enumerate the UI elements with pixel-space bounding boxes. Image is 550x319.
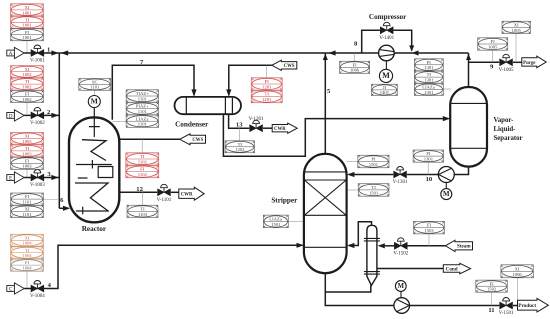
instrument SC-1101 (79, 78, 111, 90)
wire stream 13 valve to CWR flag (263, 127, 272, 129)
wire steam supply line (407, 245, 445, 247)
wire stripper pump motor link (400, 292, 402, 298)
arrow stream 10 into stripper (347, 172, 354, 177)
svg-text:1102: 1102 (138, 172, 148, 177)
svg-text:1001: 1001 (22, 23, 32, 28)
svg-text:Reactor: Reactor (82, 225, 107, 233)
wire connector SC-1101 to motor (94, 90, 96, 95)
svg-text:PI: PI (427, 60, 432, 65)
svg-text:1101: 1101 (138, 109, 148, 114)
arrow condenser outlet into separator (443, 116, 450, 121)
svg-text:1004: 1004 (22, 266, 32, 271)
svg-text:Compressor: Compressor (369, 13, 407, 21)
svg-text:TI: TI (25, 17, 30, 22)
wire connector FI-1503 to steam line (428, 234, 430, 246)
arrow stream 1 junction (51, 50, 58, 55)
svg-text:1101: 1101 (138, 122, 148, 127)
svg-text:Steam: Steam (457, 244, 471, 250)
arrow stream 5 into header (323, 54, 328, 60)
svg-text:V-1005: V-1005 (499, 68, 514, 73)
instrument TI-1103 (127, 205, 158, 217)
svg-text:TIAZ+: TIAZ+ (136, 91, 149, 96)
instrument XI-1005 (502, 21, 531, 33)
svg-text:1301: 1301 (424, 90, 434, 95)
instrument LIAZ-1101 (126, 115, 159, 127)
wire steam valve to reboiler (385, 245, 395, 247)
motor M compressor (379, 69, 392, 82)
svg-text:CWS: CWS (284, 64, 295, 69)
svg-text:1002: 1002 (22, 85, 32, 90)
instrument FI-1503 (414, 221, 445, 234)
svg-text:1006: 1006 (350, 68, 360, 73)
instrument TI-1001 (11, 16, 44, 28)
svg-text:V-1301: V-1301 (393, 180, 408, 185)
svg-text:FI: FI (25, 194, 30, 199)
wire connector PI-1501 to stripper (347, 161, 358, 163)
valve V-1502 (393, 238, 408, 256)
condenser tube sheet right (225, 97, 232, 114)
svg-text:XI: XI (25, 5, 30, 10)
arrow reboiler vapor into stripper (347, 243, 354, 248)
svg-text:V-1101: V-1101 (157, 198, 172, 203)
arrow header flow left after stream-5 junction (328, 50, 335, 55)
svg-text:Separator: Separator (494, 135, 523, 142)
wire CWS supply to condenser (229, 65, 272, 95)
reactor vessel (69, 117, 119, 222)
svg-text:M: M (91, 97, 98, 106)
svg-text:TI: TI (427, 72, 432, 77)
svg-text:TI: TI (25, 79, 30, 84)
flag Product outlet (518, 298, 549, 312)
svg-text:Product: Product (518, 303, 536, 309)
flag CWR from reactor coil (179, 187, 204, 200)
instrument TI-1002 (11, 78, 44, 90)
svg-text:1101: 1101 (22, 212, 32, 217)
svg-text:FI: FI (25, 92, 30, 97)
wire connector TI-1501 to stripper (347, 189, 358, 191)
flag CWS to reactor coil (180, 134, 206, 145)
svg-text:Purge: Purge (523, 61, 535, 66)
wire connector XI-1005 to purge line (515, 34, 517, 62)
wire connector FI-1502 to product line (491, 292, 493, 305)
wire product valve to flag (513, 305, 518, 307)
svg-text:Vapor-: Vapor- (494, 117, 515, 124)
svg-text:C: C (9, 287, 13, 293)
svg-text:CWR: CWR (181, 193, 193, 198)
svg-text:1501: 1501 (271, 222, 281, 227)
stripper top tray line (305, 171, 347, 173)
svg-text:CWS: CWS (192, 138, 203, 143)
wire stream 3 (feed E to header) (24, 177, 59, 179)
valve V-1301 (393, 167, 408, 185)
separator lower level line (451, 147, 487, 149)
wire connector pills 1101 to header (43, 199, 59, 201)
motor M reactor agitator (88, 96, 100, 108)
wire connector pills 1102 to CWS line (141, 139, 143, 153)
svg-text:TI: TI (265, 92, 270, 97)
instrument FI-1301 pump discharge (413, 150, 444, 162)
svg-text:1002: 1002 (22, 97, 32, 102)
wire feed header vertical (58, 53, 60, 208)
wire connector pills 1003 to stream 3 (26, 169, 28, 177)
svg-text:V-1002: V-1002 (30, 121, 45, 126)
instrument FI-1101 (11, 193, 44, 205)
stripper packing section (304, 180, 346, 215)
arrow feed into reactor (63, 206, 70, 211)
wire compressor bypass loop (362, 30, 380, 53)
wire stream 7 (reactor to condenser) (112, 65, 194, 120)
svg-text:1202: 1202 (235, 147, 245, 152)
reactor agitator shaft (89, 108, 100, 137)
instrument XI-1004 (11, 234, 44, 246)
wire stream 10 pump to valve (407, 174, 439, 176)
svg-text:FI: FI (25, 30, 30, 35)
arrow stream 7 into condenser (191, 89, 196, 96)
wire stream 5 (stripper overhead riser) (324, 53, 326, 154)
reactor coil lower (75, 183, 108, 211)
wire stream 9 (purge line) (469, 61, 500, 63)
svg-text:Condenser: Condenser (175, 121, 209, 129)
svg-text:V-1004: V-1004 (30, 294, 45, 299)
wire stream 11 pump to product valve (409, 305, 499, 307)
wire compressor bypass loop right (394, 30, 412, 50)
instrument FI-1004 (11, 259, 44, 271)
svg-text:Cond: Cond (446, 266, 458, 272)
wire connector FI-1006 to header (354, 53, 356, 61)
wire connector pills 1002 to stream 2 (26, 102, 28, 115)
wire compressor-motor link (385, 61, 387, 70)
valve V-1004 (30, 280, 45, 299)
svg-text:1005: 1005 (488, 45, 498, 50)
svg-text:FI: FI (426, 151, 431, 156)
wire purge valve to flag (513, 61, 522, 63)
svg-text:TI: TI (140, 154, 145, 159)
svg-text:1101: 1101 (90, 85, 100, 90)
wire separator overhead riser (468, 53, 470, 88)
instrument TI-1202 (225, 141, 255, 153)
stripper column shell (304, 154, 347, 273)
svg-text:FI: FI (265, 79, 270, 84)
wire CWS supply to reactor coil (119, 138, 180, 140)
pump P stripper bottoms (394, 298, 410, 314)
valve V-1101 (157, 184, 172, 202)
arrow stream 2 junction (51, 113, 58, 118)
svg-text:PIAZ+: PIAZ+ (136, 104, 149, 109)
flag Steam supply (445, 240, 472, 251)
svg-text:A: A (9, 51, 13, 57)
valve V-1002 (30, 107, 45, 126)
wire connector pills 1201 to CWS line (266, 65, 268, 78)
stripper bottom tray line (305, 246, 347, 248)
wire connector pills 1001 to stream 1 (26, 41, 28, 52)
wire reboiler bottoms to downcomer (325, 285, 371, 292)
flag Cond outlet (443, 263, 470, 274)
reactor coil upper (82, 140, 106, 161)
svg-text:V-1003: V-1003 (30, 183, 45, 188)
svg-text:PI: PI (371, 157, 376, 162)
wire reboiler vapor return to stripper (349, 222, 372, 246)
svg-text:XI: XI (25, 67, 30, 72)
svg-text:FI: FI (353, 62, 358, 67)
instrument TI-1501 (358, 184, 389, 197)
feed source D (7, 110, 24, 121)
svg-text:1301: 1301 (424, 78, 434, 83)
svg-text:FI: FI (427, 223, 432, 228)
svg-text:LIAZ±: LIAZ± (136, 116, 149, 121)
instrument TI-1003 (11, 145, 44, 157)
svg-text:1003: 1003 (22, 139, 32, 144)
wire top recycle header (streams 8/5 to feed junction) (59, 52, 468, 54)
svg-text:M: M (398, 283, 405, 290)
svg-text:CWR: CWR (274, 127, 286, 132)
instrument TI-1301 (414, 71, 443, 83)
wire stream 10 valve to stripper (349, 174, 394, 176)
wire connector TI-1103 to stream 12 (142, 192, 144, 205)
instrument FI-1003 (11, 157, 44, 169)
wire separator bottoms to pump (454, 166, 469, 174)
svg-text:LIAZ±: LIAZ± (269, 217, 282, 222)
instrument TIAZ-1101 (126, 90, 159, 102)
svg-text:1003: 1003 (22, 151, 32, 156)
arrow steam into reboiler (378, 243, 385, 248)
wire stream 12 valve to CWR flag (171, 191, 179, 193)
instrument XI-1001 (11, 4, 44, 16)
instrument XI-1101 (11, 205, 44, 217)
wire stream 1 (feed A to header) (24, 52, 59, 54)
svg-text:1004: 1004 (22, 253, 32, 258)
reboiler tube sheets bottom (364, 272, 380, 275)
svg-text:1102: 1102 (138, 160, 148, 165)
wire connector LIAZ-1501 to stripper (288, 221, 304, 223)
valve V-1003 (30, 169, 45, 188)
svg-text:1501: 1501 (369, 162, 379, 167)
wire stream 12 (coil outlet to CWR) (119, 191, 157, 193)
compressor (379, 45, 395, 61)
arrow stream 4 into stripper (297, 243, 304, 248)
svg-text:XI: XI (514, 23, 519, 28)
instrument PIAZ-1101 (126, 102, 159, 114)
svg-text:FI: FI (491, 39, 496, 44)
svg-text:FI: FI (25, 158, 30, 163)
svg-text:1: 1 (47, 47, 50, 54)
instrument XI-1003 (11, 132, 44, 144)
svg-text:1201: 1201 (262, 85, 272, 90)
vapor-liquid separator shell (450, 87, 487, 167)
svg-text:1005: 1005 (512, 28, 522, 33)
arrow header flow left after A junction (61, 50, 69, 55)
arrow stream 3 junction (51, 175, 58, 180)
wire connector pills 1004 to stream 4 (26, 272, 28, 289)
svg-text:XI: XI (515, 266, 520, 271)
instrument XI-1006 (501, 265, 534, 278)
wire stream 2 (feed D to header) (24, 114, 59, 116)
instrument LIAZ-1301 (414, 83, 443, 95)
svg-text:1001: 1001 (22, 10, 32, 15)
instrument FI-1502 (476, 280, 508, 292)
wire separator pump motor link (445, 183, 447, 189)
motor M stripper pump (395, 281, 406, 292)
svg-text:Stripper: Stripper (271, 196, 298, 204)
svg-text:12: 12 (136, 186, 143, 193)
wire connector TI-1202 to stream 13 (238, 128, 240, 141)
wire condensate to Cond flag (377, 268, 443, 270)
wire connector FI-1005 to purge line (492, 50, 494, 62)
condenser tube sheet left (185, 97, 187, 114)
svg-text:1503: 1503 (424, 228, 434, 233)
wire connector FI-1301 to stream 10 (427, 162, 429, 175)
svg-text:TI: TI (371, 185, 376, 190)
wire connector XI-1006 to product line (516, 278, 518, 306)
svg-text:V-1201: V-1201 (249, 117, 264, 122)
instrument TI-1201 (251, 90, 282, 102)
svg-text:XI: XI (25, 235, 30, 240)
svg-text:11: 11 (488, 307, 494, 314)
wire connector LIAZ-1301 stack to separator (443, 88, 451, 90)
instrument LIAZ-1501 (263, 215, 288, 228)
valve V-1401 (379, 22, 394, 41)
reactor coil middle (76, 160, 113, 178)
svg-text:1502: 1502 (487, 287, 497, 292)
reactor coil lower ticks (76, 207, 109, 215)
svg-text:1301: 1301 (424, 65, 434, 70)
instrument TI-1102 (126, 153, 159, 165)
svg-text:FI: FI (140, 167, 145, 172)
svg-text:XI: XI (25, 207, 30, 212)
svg-text:10: 10 (426, 176, 433, 183)
wire stream 4 (feed C to stripper) (24, 245, 302, 288)
instrument TI-1004 (11, 247, 44, 259)
instrument JI-1401 (371, 84, 397, 95)
wire connector TIAZ-1101 stack to reactor (112, 121, 126, 123)
wire stream 13 (condenser CW outlet) (229, 114, 250, 129)
valve V-1005 (499, 54, 514, 73)
svg-text:V-1502: V-1502 (393, 251, 408, 256)
instrument XI-1002 (11, 66, 44, 78)
svg-text:1501: 1501 (369, 191, 379, 196)
valve V-1201 (249, 117, 264, 132)
svg-text:1006: 1006 (513, 272, 523, 277)
flag Purge outlet (522, 56, 546, 67)
instrument FI-1001 (11, 29, 44, 41)
svg-text:1101: 1101 (138, 97, 148, 102)
arrow separator overhead into header (466, 54, 471, 60)
reboiler shell (367, 225, 377, 285)
reboiler tube sheets top (364, 238, 380, 241)
svg-text:1002: 1002 (22, 72, 32, 77)
svg-text:1004: 1004 (22, 241, 32, 246)
instrument PI-1301 (414, 59, 443, 71)
instrument FI-1002 (11, 90, 44, 102)
motor M separator pump (441, 189, 452, 200)
feed source E (7, 172, 24, 183)
svg-text:13: 13 (236, 121, 243, 128)
svg-text:V-1401: V-1401 (379, 36, 394, 41)
svg-text:V-1501: V-1501 (499, 311, 514, 316)
instrument PI-1501 (358, 155, 389, 168)
svg-text:1201: 1201 (262, 97, 272, 102)
svg-text:1301: 1301 (424, 157, 434, 162)
feed source C (7, 283, 24, 294)
arrow CWS into condenser (226, 89, 231, 96)
arrow header flow left after bypass junction (412, 50, 419, 55)
flag CWR from condenser (272, 123, 297, 133)
svg-text:TI: TI (140, 207, 145, 212)
valve V-1501 (499, 297, 514, 316)
svg-text:1001: 1001 (22, 35, 32, 40)
svg-text:LIAZ±: LIAZ± (422, 85, 435, 90)
pump P separator bottoms (438, 167, 454, 183)
valve V-1001 (30, 45, 45, 64)
svg-text:M: M (443, 191, 450, 198)
svg-text:1103: 1103 (138, 212, 148, 217)
svg-text:1401: 1401 (380, 90, 390, 95)
wire feed into reactor (stream 6) (59, 207, 68, 209)
wire condenser outlet to separator (223, 114, 448, 157)
instrument FI-1201 (251, 78, 282, 90)
svg-text:FI: FI (25, 260, 30, 265)
svg-text:TI: TI (25, 146, 30, 151)
svg-text:Liquid-: Liquid- (494, 126, 517, 133)
instrument FI-1005 (478, 38, 508, 50)
svg-text:1003: 1003 (22, 164, 32, 169)
svg-text:M: M (382, 71, 390, 80)
flag CWS to condenser (272, 60, 297, 70)
svg-text:XI: XI (25, 134, 30, 139)
condenser shell (175, 97, 242, 114)
svg-text:V-1001: V-1001 (30, 59, 45, 64)
instrument FI-1006 (340, 61, 370, 73)
instrument FI-1102 (126, 165, 159, 177)
feed source A (7, 47, 24, 58)
svg-text:D: D (9, 113, 13, 119)
separator upper level line (451, 102, 487, 104)
arrow bypass rejoin suction (409, 45, 414, 51)
wire stripper bottoms downcomer (325, 273, 394, 305)
svg-text:1101: 1101 (22, 200, 32, 205)
svg-text:TI: TI (25, 248, 30, 253)
